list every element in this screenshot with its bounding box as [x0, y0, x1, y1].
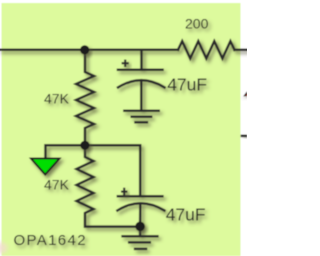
capacitor C1 47uF: [140, 50, 143, 70]
node junction dot middle: [80, 141, 89, 150]
svg-text:47uF: 47uF: [166, 205, 206, 225]
svg-text:47K: 47K: [44, 177, 70, 193]
resistor R2 47K: [77, 145, 141, 226]
svg-text:47uF: 47uF: [167, 75, 207, 95]
svg-text:200: 200: [185, 15, 209, 31]
wire fragment dash right edge: [241, 135, 247, 137]
fragment shadow: [243, 97, 247, 99]
red component fragment right edge: [243, 91, 247, 96]
schematic canvas: [2, 3, 241, 256]
ground reference triangle VG (green): [31, 159, 60, 175]
white page background: [0, 0, 247, 256]
node junction dot ground: [135, 222, 145, 232]
resistor R3 200: [178, 41, 235, 58]
plus sign of C2: [121, 188, 127, 196]
wire top-right segment: [235, 49, 248, 52]
plus sign of C1: [122, 60, 129, 68]
svg-text:47K: 47K: [44, 91, 70, 107]
wire middle net: [46, 145, 141, 196]
pink smudge bottom-left: [0, 243, 8, 254]
svg-text:OPA1642: OPA1642: [14, 232, 87, 249]
ground of C2: [139, 226, 142, 236]
resistor R1 47K: [76, 50, 94, 145]
node junction dot top: [80, 45, 89, 54]
wire top-left segment: [0, 49, 178, 52]
ground of C1: [124, 109, 158, 112]
capacitor C2 47uF: [118, 195, 162, 198]
